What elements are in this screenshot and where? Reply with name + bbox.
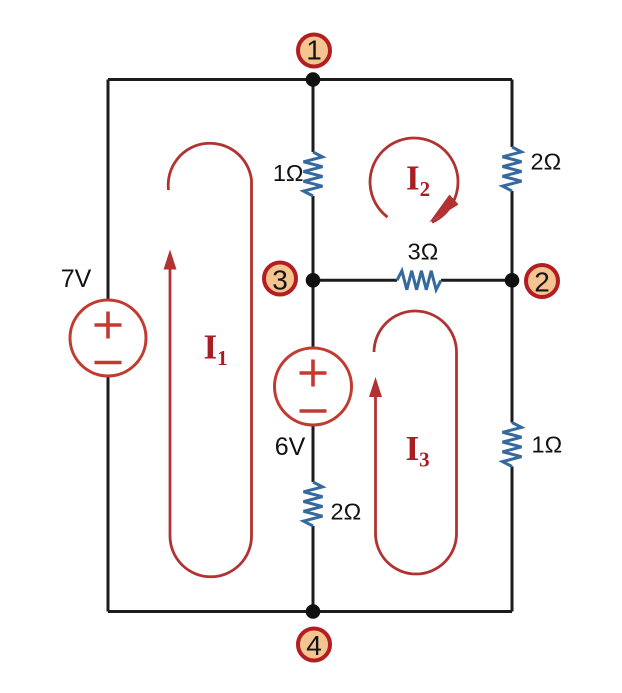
wire middle branch lower [312, 526, 315, 612]
svg-text:2: 2 [534, 267, 550, 298]
junction dot node 1 [306, 72, 321, 87]
node badge 3 [264, 263, 296, 296]
wire middle branch upper [312, 80, 315, 153]
wire node3 to 3ohm [313, 279, 397, 282]
mesh current I2 loop [370, 138, 458, 222]
wire 3ohm to node2 [441, 279, 512, 282]
resistor R1 1ohm (middle top) [304, 152, 323, 196]
resistor R3 3ohm (horizontal) [397, 271, 441, 290]
voltage source V1 7V [70, 300, 146, 376]
svg-text:2Ω: 2Ω [331, 499, 362, 525]
node badge 4 [298, 629, 330, 662]
arrowhead I1 [164, 250, 177, 270]
node badge 1 [298, 35, 330, 67]
svg-text:2Ω: 2Ω [531, 149, 562, 175]
resistor R2 2ohm (right top) [503, 147, 522, 191]
svg-text:1Ω: 1Ω [532, 432, 563, 458]
junction dot node 4 [306, 604, 321, 619]
junction dot node 2 [505, 273, 520, 288]
svg-text:3Ω: 3Ω [408, 239, 439, 265]
svg-text:6V: 6V [275, 433, 306, 461]
wire left branch [107, 80, 110, 612]
wire right branch middle [511, 191, 514, 423]
node badge 2 [526, 265, 558, 298]
mesh current I1 loop [168, 143, 251, 577]
wire middle branch center [312, 196, 315, 482]
wire top (node1 horizontal) [108, 78, 512, 81]
svg-text:4: 4 [306, 630, 322, 661]
wire right branch lower [511, 467, 514, 612]
junction dot node 3 [306, 273, 321, 288]
voltage source V2 6V [275, 348, 352, 425]
svg-text:1Ω: 1Ω [273, 160, 304, 186]
wire bottom (node4 horizontal) [108, 610, 512, 613]
arrowhead I3 [369, 377, 382, 397]
resistor R5 2ohm (middle bottom) [304, 482, 323, 526]
svg-text:3: 3 [272, 265, 288, 296]
arrowhead I2 [429, 195, 458, 223]
wire right branch upper [511, 80, 514, 148]
mesh current I3 loop [374, 311, 457, 574]
svg-text:7V: 7V [61, 265, 92, 293]
resistor R4 1ohm (right bottom) [503, 423, 522, 467]
svg-text:1: 1 [306, 35, 322, 66]
